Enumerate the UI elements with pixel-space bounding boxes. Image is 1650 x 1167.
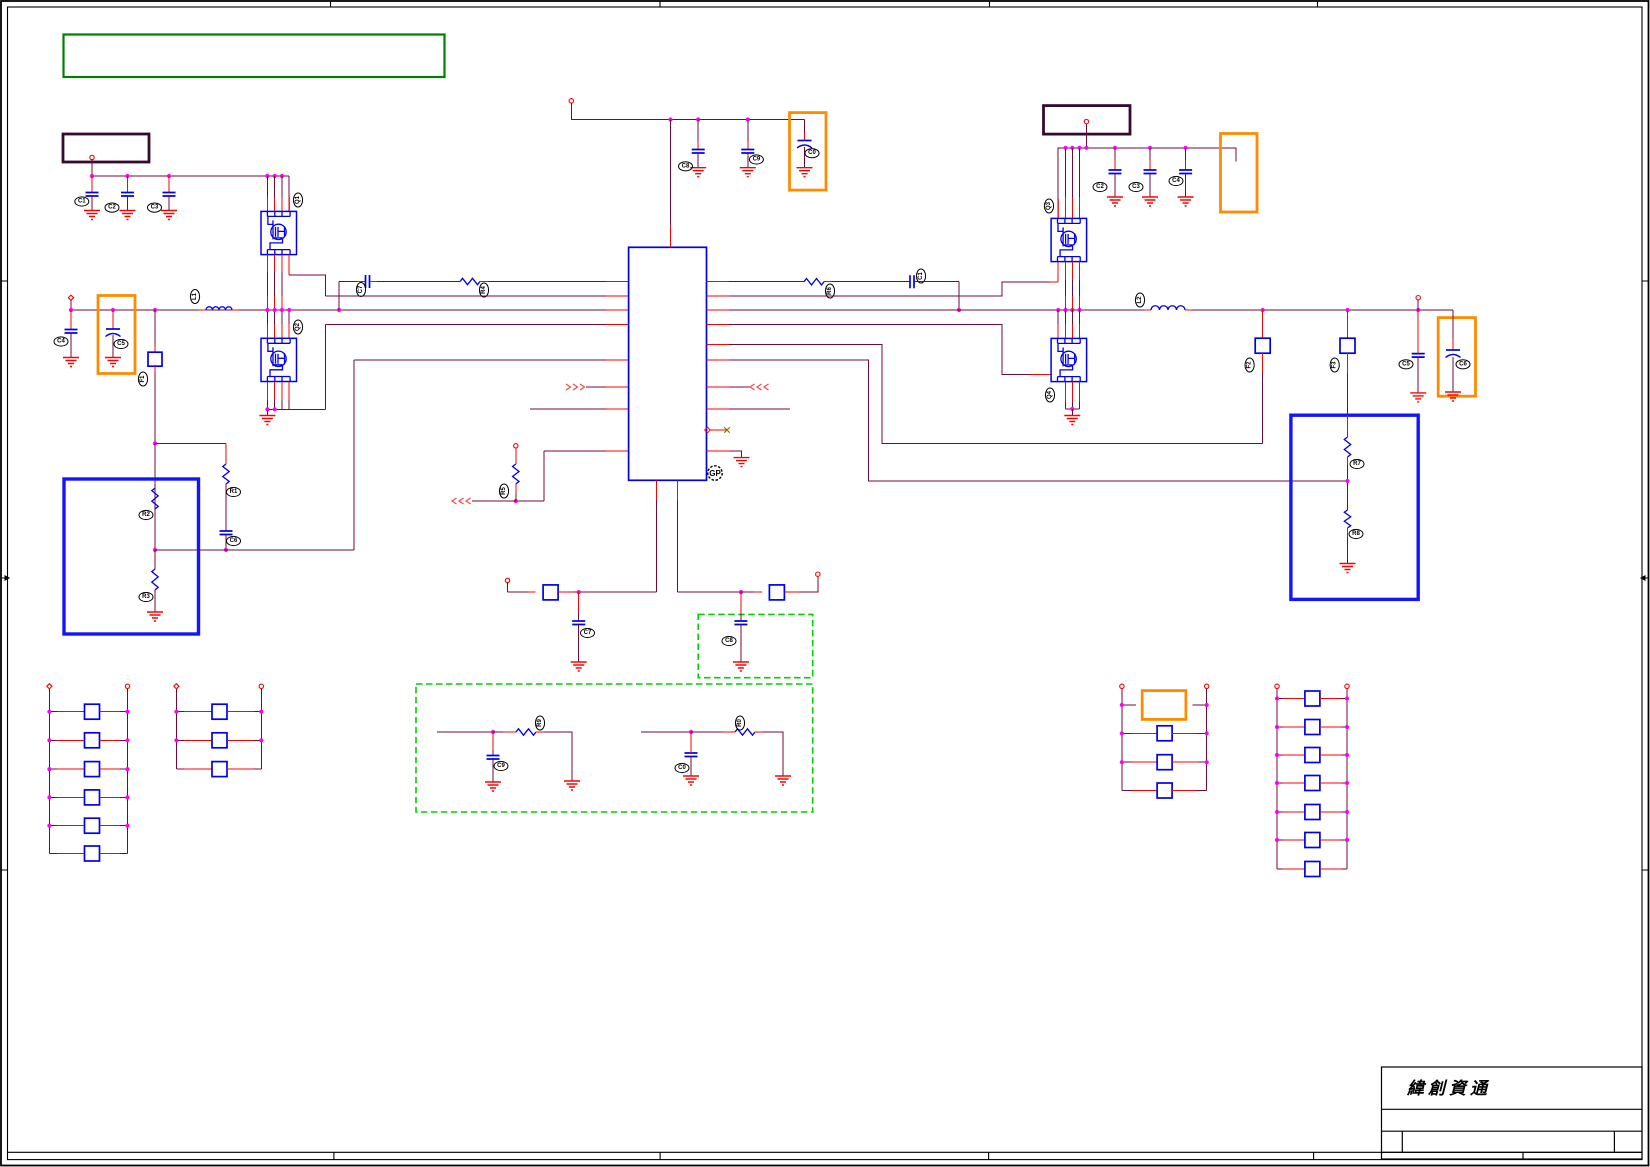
svg-text:R9: R9 bbox=[537, 719, 543, 727]
svg-text:F1: F1 bbox=[140, 375, 146, 383]
border strip bottom bbox=[8, 1152, 1643, 1159]
wires Q1 to Q2 columns bbox=[266, 255, 268, 272]
wire rail between resistors bbox=[154, 365, 156, 367]
label R8 bbox=[1349, 529, 1363, 538]
svg-text:C0: C0 bbox=[808, 150, 816, 156]
svg-text:R8: R8 bbox=[1352, 531, 1360, 537]
wire row E right bbox=[707, 344, 730, 346]
terminal pullup bbox=[514, 444, 518, 448]
main bus right segment bbox=[707, 309, 730, 311]
capacitor C6 bbox=[220, 531, 233, 535]
wire row F left bbox=[586, 386, 606, 388]
resistor pack RP3b bbox=[1122, 761, 1131, 763]
junction Q4 source bbox=[1070, 407, 1074, 411]
svg-text:C2: C2 bbox=[108, 205, 116, 211]
capacitor C18 bbox=[740, 592, 742, 614]
resistor pack RP4g bbox=[1277, 868, 1283, 870]
resistor R8 bbox=[1344, 510, 1350, 528]
label C4 bbox=[54, 337, 68, 346]
ground C15 bbox=[1410, 393, 1426, 402]
wire row F right bbox=[707, 386, 730, 388]
label R7 bbox=[1350, 459, 1364, 468]
wires Q3 to Q4 columns bbox=[1065, 262, 1067, 280]
border arrow left bbox=[2, 576, 9, 580]
wire source tie bbox=[267, 408, 325, 410]
green dashed box C18 bbox=[698, 614, 813, 677]
svg-text:R1: R1 bbox=[230, 489, 238, 495]
label L1 bbox=[190, 290, 199, 304]
ground C16 bbox=[1445, 392, 1461, 401]
resistor pack RP1a bbox=[49, 711, 57, 713]
title block bbox=[1382, 1067, 1643, 1160]
resistor pack RP1d bbox=[49, 796, 57, 798]
terminal ladder3 left bbox=[1120, 684, 1124, 688]
resistor pack RP4f bbox=[1277, 839, 1283, 841]
wire FB3 down bbox=[1347, 353, 1349, 373]
junction dots source tie bbox=[265, 407, 269, 411]
ladder3 rails bbox=[1121, 689, 1123, 791]
junction dots top-right bus bbox=[1063, 146, 1067, 150]
wire R1 to C6 bbox=[225, 484, 227, 531]
junction dots RP1c bbox=[47, 767, 51, 771]
label C13 bbox=[1129, 182, 1143, 191]
wire col4 bus to Q2 bbox=[288, 310, 290, 324]
wire FB1 down bbox=[154, 366, 156, 373]
wires bus to Q4 columns bbox=[1057, 310, 1059, 324]
junction row A drop bbox=[957, 308, 961, 312]
ground C8 bbox=[690, 168, 706, 177]
wire C7 drop to bus bbox=[338, 282, 340, 311]
ground R3 bbox=[154, 590, 156, 612]
resistor pack RP4e bbox=[1277, 811, 1283, 813]
resistor pack RP3a bbox=[1122, 732, 1131, 734]
svg-text:GP: GP bbox=[709, 469, 721, 478]
wire row G left bbox=[530, 408, 606, 410]
transistor Q4 (dual MOSFET) bbox=[1051, 338, 1087, 381]
junction dots RP1e bbox=[47, 824, 51, 828]
svg-text:C2: C2 bbox=[1096, 184, 1104, 190]
junction divider node bbox=[1345, 479, 1349, 483]
capacitor C8 bbox=[697, 120, 699, 142]
svg-text:C1: C1 bbox=[78, 199, 86, 205]
orange highlight box C5 bbox=[98, 296, 135, 374]
label R2 bbox=[139, 510, 153, 519]
wire row D drop bbox=[353, 360, 355, 550]
svg-text:C9: C9 bbox=[753, 157, 761, 163]
ground filter1 right bbox=[564, 781, 580, 790]
terminal VCC2 bbox=[569, 99, 573, 103]
capacitor C19 bbox=[492, 732, 494, 750]
terminal ladder2 left bbox=[174, 684, 179, 689]
ground C14 bbox=[1178, 197, 1194, 206]
svg-text:R2: R2 bbox=[142, 512, 150, 518]
wire filter1 input bbox=[437, 731, 493, 733]
svg-text:C6: C6 bbox=[230, 538, 238, 544]
svg-text:C5: C5 bbox=[1402, 361, 1410, 367]
label C2 bbox=[105, 203, 119, 212]
svg-text:緯創資通: 緯創資通 bbox=[1406, 1079, 1491, 1098]
wire FB2 down bbox=[1262, 353, 1264, 373]
wire row A right - IC to R6 bbox=[707, 281, 730, 283]
junction dots RP2b bbox=[174, 738, 178, 742]
junction dots RP4d bbox=[1275, 781, 1279, 785]
svg-text:C7: C7 bbox=[358, 285, 364, 293]
resistor pack RP1f bbox=[49, 853, 57, 855]
wire row C bbox=[326, 324, 606, 326]
resistor R1 bbox=[225, 443, 227, 464]
svg-text:F2: F2 bbox=[1247, 361, 1253, 369]
transistor Q2 (dual MOSFET) bbox=[261, 338, 297, 381]
junction C6 bottom bbox=[224, 548, 228, 552]
capacitor C15 bbox=[1417, 310, 1419, 349]
resistor pack RP1b bbox=[49, 739, 57, 741]
offpage arrows row F right bbox=[750, 384, 755, 390]
ground row I bbox=[734, 458, 750, 467]
offpage arrows row F left bbox=[566, 384, 571, 390]
label Q4 bbox=[1045, 388, 1054, 402]
wire R4 to IC bbox=[480, 281, 488, 283]
resistor R7 bbox=[1347, 415, 1349, 437]
ferrite bead FB1 (blue square) bbox=[154, 310, 156, 346]
ground C12 bbox=[1107, 197, 1123, 206]
orange highlight box right-top bbox=[1221, 134, 1258, 213]
resistor pack RP4b bbox=[1277, 726, 1283, 728]
ground C20 bbox=[683, 776, 699, 785]
capacitor C14 bbox=[1185, 148, 1187, 160]
svg-text:Q3: Q3 bbox=[1046, 201, 1052, 210]
resistor pack RP4c bbox=[1277, 754, 1283, 756]
wire row D to IC bbox=[354, 359, 606, 361]
svg-text:F3: F3 bbox=[1332, 361, 1338, 369]
wire R5 to node bbox=[515, 484, 517, 494]
wire xtal left branch bbox=[507, 583, 509, 593]
power box P2 (dark purple) bbox=[1044, 106, 1131, 135]
wire row I corner down bbox=[543, 451, 545, 501]
transistor Q3 (dual MOSFET) bbox=[1051, 218, 1087, 261]
label C15 bbox=[1399, 360, 1413, 369]
svg-text:Q1: Q1 bbox=[295, 195, 301, 204]
wire arrows to node bbox=[472, 500, 516, 502]
svg-text:C4: C4 bbox=[57, 339, 65, 345]
wire R6 to C11 bbox=[824, 281, 832, 283]
label C20 bbox=[675, 763, 689, 772]
label FB2 bbox=[1245, 358, 1254, 372]
capacitor C10 (polarized) bbox=[804, 120, 806, 133]
ground C17 bbox=[571, 662, 587, 671]
resistor pack RP4d bbox=[1277, 782, 1283, 784]
wire R9 to ground corner bbox=[536, 731, 544, 733]
label C1 bbox=[75, 197, 89, 206]
wire bus corner to Q1 col4 bbox=[288, 176, 290, 211]
wire sense stub bbox=[1417, 300, 1419, 310]
resistor pack RP4a bbox=[1277, 698, 1283, 700]
wire xtal right branch bbox=[678, 591, 741, 593]
svg-text:C1: C1 bbox=[918, 272, 924, 280]
label Q2 bbox=[293, 320, 302, 334]
wire top-right bus bbox=[1058, 148, 1236, 219]
resistor R3 bbox=[152, 569, 158, 590]
wire filter2 to R10 bbox=[691, 731, 722, 733]
capacitor C3 bbox=[168, 176, 170, 193]
junction dots main bus right bbox=[1056, 308, 1060, 312]
label C6 bbox=[227, 536, 241, 545]
label R5 bbox=[499, 484, 508, 498]
power box P1 (dark purple) bbox=[63, 134, 149, 162]
junction dots RP4c bbox=[1275, 753, 1279, 757]
wire VCC2 bus bbox=[571, 103, 804, 120]
terminal ladder3 right bbox=[1205, 684, 1209, 688]
offpage arrows pullup bbox=[452, 498, 457, 504]
junction pullup node bbox=[514, 499, 518, 503]
junction dots RP4f bbox=[1275, 838, 1279, 842]
capacitor C13 bbox=[1149, 148, 1151, 160]
wire row C drop bbox=[325, 325, 327, 410]
border zone ticks top bbox=[331, 1, 1318, 7]
capacitor C2 bbox=[127, 176, 129, 193]
label R10 bbox=[735, 716, 744, 730]
wire VCC1 to bus bbox=[91, 160, 93, 176]
wire top-left bus bbox=[92, 175, 289, 177]
ladder2 rails bbox=[175, 689, 177, 769]
junction filter2 bbox=[689, 730, 693, 734]
wires bus to Q2 columns bbox=[266, 310, 268, 324]
wire Q4 source tie bbox=[1066, 408, 1080, 410]
wire row B right bbox=[707, 295, 730, 297]
border zone ticks left bbox=[1, 281, 8, 870]
capacitor C4 bbox=[70, 310, 72, 330]
wire R8 to ground bbox=[1347, 528, 1349, 537]
junction FB1 node bbox=[153, 441, 157, 445]
label C7 bbox=[356, 283, 365, 297]
orange part X1 bbox=[1142, 691, 1186, 720]
terminal VIN left bbox=[68, 295, 73, 300]
crystal load part S4 bbox=[769, 585, 784, 600]
label C16 bbox=[1456, 360, 1470, 369]
svg-text:C7: C7 bbox=[584, 630, 592, 636]
terminal ladder4 left bbox=[1275, 684, 1279, 688]
wire filter2 input bbox=[641, 731, 691, 733]
wire row G right stub bbox=[707, 408, 730, 410]
main bus left segment bbox=[71, 309, 606, 311]
ground C18 bbox=[733, 662, 749, 671]
wire row I left bbox=[544, 450, 606, 452]
green dashed box filters bbox=[416, 684, 813, 812]
ground C1 bbox=[84, 211, 100, 220]
wire row I right to ground bbox=[707, 450, 730, 452]
wires Q2 source columns to tie bbox=[266, 382, 268, 401]
wire S3 to node bbox=[558, 591, 573, 593]
svg-text:C3: C3 bbox=[151, 205, 159, 211]
junction dots VCC2 bus bbox=[668, 117, 672, 121]
wire VIN stub bbox=[70, 300, 72, 310]
crystal load part S3 bbox=[543, 585, 558, 600]
wire IC top pin bbox=[670, 120, 672, 226]
terminal right xtal bbox=[816, 572, 820, 576]
junction dots RP4a bbox=[1275, 696, 1279, 700]
svg-text:C6: C6 bbox=[1459, 361, 1467, 367]
capacitor C16 (polarized) bbox=[1452, 310, 1454, 339]
junction dots RP2a bbox=[174, 710, 178, 714]
wire link to pullup node bbox=[516, 500, 544, 502]
capacitor C12 bbox=[1114, 148, 1116, 160]
ground C2 bbox=[120, 211, 136, 220]
svg-text:R5: R5 bbox=[501, 487, 507, 495]
svg-text:C4: C4 bbox=[1172, 178, 1180, 184]
junction xtal left bbox=[577, 590, 581, 594]
junction dots RP1a bbox=[47, 710, 51, 714]
label C11 bbox=[916, 269, 925, 283]
border arrow right bbox=[1641, 576, 1648, 580]
svg-text:R4: R4 bbox=[481, 286, 487, 294]
wire IC bottom pin2 bbox=[677, 480, 679, 500]
junction dots RP3a bbox=[1120, 731, 1124, 735]
svg-text:C5: C5 bbox=[117, 341, 125, 347]
svg-text:L1: L1 bbox=[192, 292, 198, 300]
resistor pack RP2c bbox=[176, 768, 184, 770]
blue group box left bbox=[64, 479, 199, 634]
junction dots RP3b bbox=[1120, 760, 1124, 764]
label C9 bbox=[749, 155, 763, 164]
ground filter2 right bbox=[775, 776, 791, 785]
wire S4 to terminal bbox=[784, 591, 799, 593]
svg-text:C9: C9 bbox=[497, 763, 505, 769]
capacitor C5 (polarized) bbox=[112, 310, 114, 329]
wire IC bottom pin1 bbox=[656, 480, 658, 500]
wire row A cap corner bbox=[339, 281, 357, 283]
svg-text:Q2: Q2 bbox=[295, 322, 301, 331]
title box green (notes) bbox=[64, 35, 445, 78]
capacitor C17 bbox=[578, 592, 580, 614]
transistor Q1 (dual MOSFET) bbox=[261, 211, 297, 254]
wires Q3 columns top bbox=[1065, 148, 1067, 197]
terminal VCC3 bbox=[1084, 119, 1088, 123]
wires X1 row bbox=[1122, 704, 1136, 706]
capacitor C7 (series) bbox=[366, 275, 370, 288]
ground C13 bbox=[1142, 197, 1158, 206]
ground R8 bbox=[1340, 564, 1356, 573]
junction xtal right bbox=[739, 590, 743, 594]
terminal left xtal bbox=[505, 578, 509, 582]
label C10 bbox=[805, 149, 819, 158]
terminal sense bbox=[1416, 296, 1420, 300]
wire Q1 col4 to row B bbox=[288, 255, 290, 275]
label C18 bbox=[722, 636, 736, 645]
ferrite bead FB2 bbox=[1262, 310, 1264, 338]
no-connect pin row H bbox=[705, 427, 711, 433]
terminal VCC1 bbox=[90, 155, 94, 159]
junction dots RP1d bbox=[47, 795, 51, 799]
wire Q3 col1 to row B bbox=[1057, 262, 1059, 282]
terminal ladder1 left bbox=[47, 684, 52, 689]
resistor R10 bbox=[735, 729, 755, 735]
label C3 bbox=[148, 203, 162, 212]
capacitor C20 bbox=[690, 732, 692, 748]
svg-text:L2: L2 bbox=[1137, 296, 1143, 304]
blue group box right bbox=[1291, 415, 1418, 599]
ground C19 bbox=[485, 782, 501, 791]
border zone ticks right bbox=[1642, 281, 1649, 870]
label Q3 bbox=[1044, 199, 1053, 213]
wire R10 to ground corner bbox=[755, 731, 763, 733]
capacitor C1 bbox=[91, 176, 93, 193]
svg-text:C0: C0 bbox=[678, 765, 686, 771]
label R6 bbox=[825, 284, 834, 298]
wire filter1 to R9 bbox=[493, 731, 503, 733]
junction dots RP4b bbox=[1275, 725, 1279, 729]
label R9 bbox=[535, 716, 544, 730]
terminal ladder1 right bbox=[125, 684, 129, 688]
label GP marker bbox=[708, 466, 722, 480]
label C12 bbox=[1093, 182, 1107, 191]
wire VCC3 stub bbox=[1085, 124, 1087, 148]
svg-text:C8: C8 bbox=[682, 163, 690, 169]
label FB3 bbox=[1330, 358, 1339, 372]
wire node to S4 bbox=[741, 591, 754, 593]
resistor R9 bbox=[516, 729, 536, 735]
wire R7 to node bbox=[1347, 457, 1349, 465]
junction dots main bus left bbox=[69, 308, 73, 312]
junction dots X1 row bbox=[1120, 703, 1124, 707]
svg-text:R3: R3 bbox=[142, 594, 150, 600]
wire row B to IC bbox=[326, 295, 606, 297]
svg-text:C8: C8 bbox=[725, 638, 733, 644]
resistor R2 bbox=[154, 550, 156, 569]
ladder1 rails bbox=[48, 689, 50, 854]
label Q1 bbox=[293, 193, 302, 207]
ground C5 bbox=[105, 358, 121, 367]
resistor R5 pullup bbox=[515, 448, 517, 464]
svg-text:R0: R0 bbox=[737, 719, 743, 727]
svg-text:Q4: Q4 bbox=[1047, 390, 1053, 399]
resistor R6 bbox=[804, 279, 824, 285]
label L2 bbox=[1135, 293, 1144, 307]
orange highlight box C16 bbox=[1438, 318, 1475, 397]
wire C11 to bus corner bbox=[914, 281, 959, 283]
resistor pack RP2b bbox=[176, 739, 184, 741]
terminal ladder4 right bbox=[1345, 684, 1349, 688]
capacitor C9 bbox=[747, 120, 749, 142]
label C5 bbox=[114, 339, 128, 348]
wire horizontal link y550 bbox=[155, 549, 354, 551]
ground C9 bbox=[740, 168, 756, 177]
inductor L1 bbox=[199, 309, 206, 311]
junction dots RP1b bbox=[47, 738, 51, 742]
label R1 bbox=[227, 487, 241, 496]
ground Q2 source bbox=[266, 409, 268, 415]
label R3 bbox=[139, 592, 153, 601]
orange highlight box C10 bbox=[790, 113, 827, 191]
resistor pack RP1e bbox=[49, 825, 57, 827]
resistor pack RP2a bbox=[176, 711, 184, 713]
label C19 bbox=[494, 761, 508, 770]
resistor pack RP1c bbox=[49, 768, 57, 770]
svg-text:C3: C3 bbox=[1132, 184, 1140, 190]
wire C7 to R4 bbox=[370, 281, 378, 283]
ground C4 bbox=[63, 358, 79, 367]
ground C10 bbox=[797, 168, 813, 177]
junction filter1 bbox=[491, 730, 495, 734]
ferrite bead FB3 bbox=[1347, 310, 1349, 338]
svg-text:R6: R6 bbox=[827, 287, 833, 295]
label C17 bbox=[581, 628, 595, 637]
label FB1 bbox=[138, 372, 147, 386]
label C14 bbox=[1169, 176, 1183, 185]
label R4 bbox=[479, 283, 488, 297]
svg-text:R7: R7 bbox=[1353, 461, 1361, 467]
resistor R4 bbox=[460, 278, 480, 284]
ground Q4 source bbox=[1071, 409, 1073, 416]
ground C3 bbox=[161, 211, 177, 220]
